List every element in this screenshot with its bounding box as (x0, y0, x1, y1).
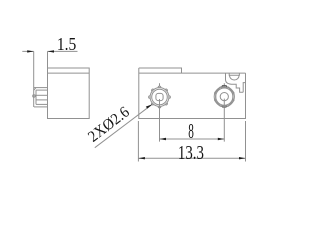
svg-text:1.5: 1.5 (57, 34, 76, 54)
side view left plate edge (33, 51, 35, 107)
front view corner notch box (243, 83, 245, 93)
side view body outline (48, 68, 90, 119)
front view top slot (229, 73, 239, 80)
hole H2 bore (220, 93, 228, 101)
hole H2 outer ring (214, 87, 234, 107)
hole H1 scallop bumps (149, 86, 171, 108)
hole H2 knurl bumps (215, 87, 234, 106)
hole H2 facet octagon (216, 87, 233, 106)
hole H2 top key notch (221, 86, 227, 88)
dim 8 arrows (160, 138, 167, 140)
dim 13.3 extension lines (138, 121, 245, 162)
side view body left edge / extension line (47, 51, 49, 118)
svg-text:8: 8 (188, 119, 194, 143)
hole H2 centerline (223, 83, 225, 141)
hole H1 bore (156, 93, 163, 100)
hole H2 bottom key notch (222, 106, 227, 108)
hole H1 centerline (159, 83, 161, 141)
dim 8 line (160, 138, 225, 140)
dim 1.5 lines (22, 50, 77, 52)
leader line (95, 104, 152, 147)
dim 1.5 arrows (27, 50, 34, 52)
leader arrow (146, 104, 153, 108)
hole H2 middle circle (216, 88, 233, 105)
dim 13.3 line (138, 157, 245, 159)
front view block outline (139, 68, 246, 119)
side view rib lines (33, 88, 48, 107)
hole H1 outer ring (150, 88, 169, 107)
hole H1 middle circle (152, 89, 168, 105)
front view corner step (226, 73, 244, 92)
svg-text:13.3: 13.3 (178, 142, 204, 164)
side view body step line (48, 72, 90, 74)
dim 13.3 arrows (138, 157, 145, 159)
